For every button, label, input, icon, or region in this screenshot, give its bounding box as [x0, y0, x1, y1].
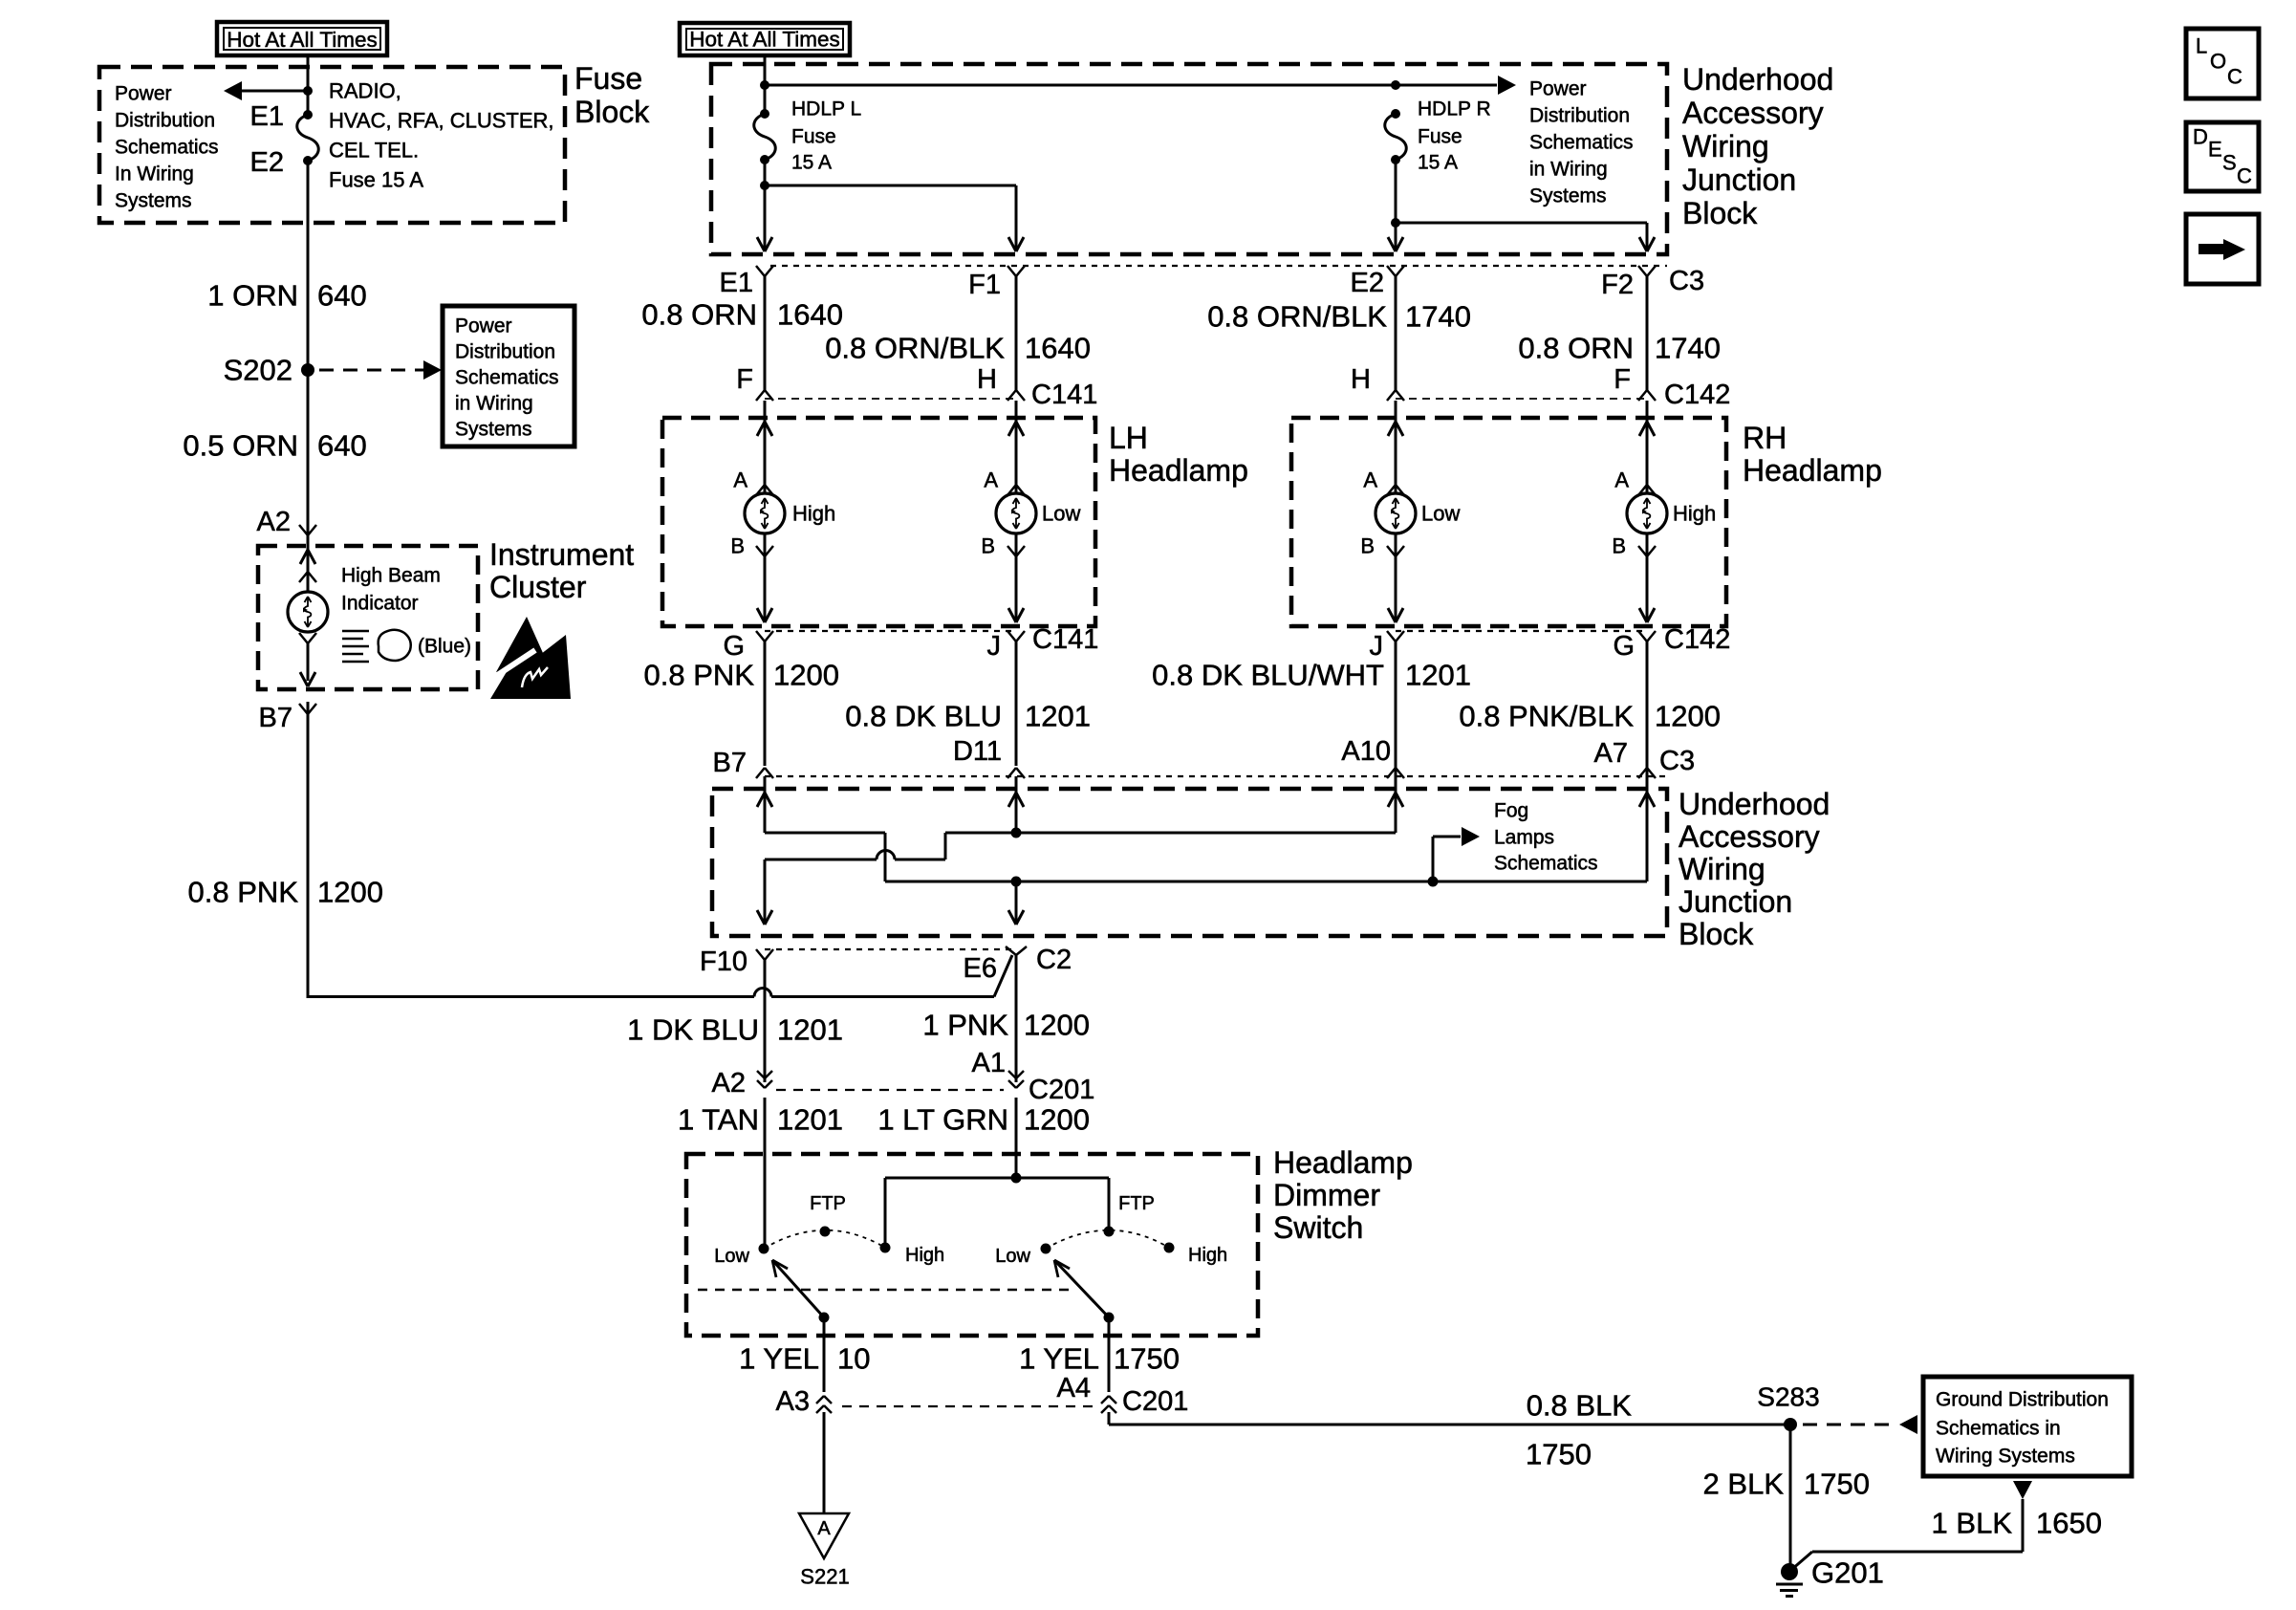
svg-text:Accessory: Accessory	[1682, 96, 1824, 130]
svg-text:Power: Power	[1529, 78, 1587, 100]
svg-text:C: C	[2227, 65, 2242, 89]
RH headlamp dashed box	[1291, 418, 1726, 626]
svg-text:0.8 ORN: 0.8 ORN	[641, 298, 757, 332]
contact: dimmer 2 Low	[1041, 1244, 1051, 1254]
svg-text:E1: E1	[250, 101, 284, 132]
off-page connector S221	[799, 1513, 849, 1558]
svg-text:A2: A2	[712, 1068, 746, 1099]
junction: high bus at fog branch	[1428, 877, 1439, 887]
svg-text:LH: LH	[1109, 421, 1148, 455]
wire: F1 to H (LH low feed)	[1015, 276, 1018, 390]
contact: dimmer 1 High	[880, 1243, 891, 1253]
wire below indicator	[299, 633, 308, 643]
icon: headlamp beam symbol	[342, 630, 369, 633]
switch arm dimmer 2	[1104, 1313, 1115, 1323]
svg-text:A: A	[984, 468, 998, 492]
svg-text:0.5 ORN: 0.5 ORN	[183, 429, 298, 463]
svg-text:Low: Low	[995, 1246, 1030, 1267]
contact: dimmer 1 Low	[759, 1244, 769, 1254]
svg-text:Junction: Junction	[1679, 884, 1792, 919]
splice S202	[301, 363, 314, 377]
wire: 1 LT GRN 1200 (A1 to dimmer high)	[1015, 1098, 1018, 1178]
wire: HDLP R output with branch to F2	[1395, 160, 1397, 250]
svg-text:0.8 DK BLU/WHT: 0.8 DK BLU/WHT	[1152, 659, 1384, 692]
svg-text:A: A	[1363, 468, 1377, 492]
svg-text:1200: 1200	[317, 876, 383, 909]
svg-text:F: F	[1614, 364, 1631, 395]
connector C141 (top row F/H)	[765, 398, 1016, 400]
svg-text:A: A	[1614, 468, 1629, 492]
svg-text:C3: C3	[1659, 746, 1695, 776]
svg-text:Block: Block	[1682, 196, 1758, 230]
svg-text:1740: 1740	[1655, 332, 1721, 365]
wire: B7 stub into junction block	[764, 776, 767, 833]
wire: J to A10	[1395, 642, 1397, 766]
svg-text:1 LT GRN: 1 LT GRN	[877, 1103, 1008, 1137]
mechanical link dashed line	[698, 1289, 1071, 1292]
svg-text:A10: A10	[1341, 736, 1391, 767]
svg-text:High: High	[792, 502, 835, 526]
svg-text:1200: 1200	[1024, 1103, 1090, 1137]
svg-text:F1: F1	[968, 270, 1001, 300]
connector C201 row (A3/A4)	[842, 1405, 1094, 1407]
svg-text:0.8 PNK: 0.8 PNK	[644, 659, 755, 692]
junction node on feed	[303, 86, 313, 96]
svg-text:1201: 1201	[1405, 659, 1471, 692]
svg-text:1 PNK: 1 PNK	[922, 1009, 1008, 1042]
connector C2 row (F10/E6)	[765, 948, 1016, 950]
svg-text:FTP: FTP	[810, 1193, 846, 1214]
svg-text:1200: 1200	[1024, 1009, 1090, 1042]
svg-text:Fuse 15 A: Fuse 15 A	[329, 168, 423, 192]
svg-text:Ground Distribution: Ground Distribution	[1936, 1389, 2109, 1411]
svg-text:1750: 1750	[1114, 1342, 1180, 1376]
svg-text:Schematics: Schematics	[455, 367, 559, 389]
svg-text:in Wiring: in Wiring	[455, 393, 533, 415]
fuse: HDLP L Fuse 15 A	[760, 109, 769, 119]
wire: low-beam bus (F10 to D11/A10) with hop	[765, 859, 877, 861]
svg-text:10: 10	[837, 1342, 870, 1376]
connector C142 (bottom row J/G)	[1396, 630, 1647, 632]
dashed arc dimmer 2	[1046, 1230, 1169, 1249]
svg-text:Wiring: Wiring	[1679, 852, 1765, 886]
svg-text:1200: 1200	[773, 659, 839, 692]
wire: 1 BLK 1650	[2022, 1499, 2025, 1552]
wire out of headlamp	[1646, 533, 1649, 621]
svg-text:C201: C201	[1029, 1075, 1094, 1105]
svg-text:1750: 1750	[1526, 1438, 1592, 1471]
svg-text:E1: E1	[720, 268, 753, 298]
svg-text:E2: E2	[250, 147, 284, 178]
wire into headlamp	[1015, 401, 1018, 494]
contact: dimmer 2 High	[1164, 1243, 1175, 1253]
underhood accessory wiring junction block (lower) dashed box	[712, 789, 1667, 936]
svg-text:Low: Low	[1421, 502, 1460, 526]
high beam indicator lamp	[288, 592, 328, 632]
fuse: RADIO HVAC RFA CLUSTER CEL TEL 15 A	[303, 110, 313, 120]
svg-text:Power: Power	[455, 315, 512, 337]
wire into headlamp	[1395, 401, 1397, 494]
svg-text:Fuse: Fuse	[574, 61, 642, 96]
power label box: Hot At All Times (center)	[680, 23, 850, 55]
junction: low bus at D11	[1011, 828, 1022, 838]
svg-text:Headlamp: Headlamp	[1273, 1145, 1413, 1180]
svg-text:A: A	[733, 468, 747, 492]
wire: E6 stub out of junction block	[1015, 881, 1018, 924]
wire: 1 PNK 1200 (E6 to A1)	[1015, 955, 1018, 1082]
wire: G to A7	[1646, 642, 1649, 766]
svg-text:C142: C142	[1664, 380, 1730, 410]
svg-text:G: G	[723, 631, 745, 662]
svg-text:1 TAN: 1 TAN	[678, 1103, 759, 1137]
svg-text:RADIO,: RADIO,	[329, 79, 401, 103]
svg-text:1201: 1201	[777, 1103, 843, 1137]
wire: A7 stub	[1646, 765, 1649, 881]
icon: ESD sensitive device symbol	[496, 617, 547, 672]
svg-text:0.8 PNK/BLK: 0.8 PNK/BLK	[1459, 700, 1634, 733]
svg-text:C142: C142	[1664, 624, 1730, 655]
svg-text:RH: RH	[1743, 421, 1787, 455]
svg-text:S221: S221	[800, 1565, 849, 1589]
svg-text:S202: S202	[224, 354, 292, 387]
svg-text:B7: B7	[713, 748, 747, 778]
svg-text:A7: A7	[1594, 738, 1628, 769]
instrument cluster dashed box	[258, 546, 478, 689]
wire into headlamp	[764, 401, 767, 494]
svg-text:H: H	[977, 364, 997, 395]
svg-text:F2: F2	[1601, 270, 1634, 300]
svg-text:C201: C201	[1122, 1386, 1188, 1417]
svg-text:Distribution: Distribution	[115, 110, 215, 132]
wire: 1 YEL 10 (dimmer to A3)	[823, 1317, 826, 1392]
svg-text:High Beam: High Beam	[341, 565, 441, 587]
svg-text:G201: G201	[1811, 1556, 1884, 1590]
pin B7 (instrument cluster)	[299, 704, 308, 714]
svg-text:C141: C141	[1032, 624, 1098, 655]
nav box: arrow	[2186, 214, 2259, 284]
svg-text:15 A: 15 A	[1418, 152, 1458, 174]
svg-text:Wiring Systems: Wiring Systems	[1936, 1446, 2075, 1468]
connector row B7/D11/A10/A7 (C3)	[765, 775, 1667, 777]
svg-text:Fuse: Fuse	[1418, 126, 1462, 148]
svg-text:Underhood: Underhood	[1682, 62, 1833, 97]
wire: high feed bracket in dimmer switch	[1011, 1173, 1022, 1184]
svg-text:E6: E6	[964, 953, 997, 984]
lamp: RH high beam	[1627, 493, 1667, 533]
svg-text:1 BLK: 1 BLK	[1932, 1507, 2013, 1540]
svg-text:G: G	[1613, 631, 1635, 662]
svg-text:CEL TEL.: CEL TEL.	[329, 139, 419, 163]
svg-text:D: D	[2193, 125, 2208, 149]
svg-text:1650: 1650	[2036, 1507, 2102, 1540]
dashed reference arrow from S202	[319, 369, 426, 372]
lamp: LH low beam	[996, 493, 1036, 533]
wire: fog lamps branch	[1432, 837, 1435, 881]
svg-text:1640: 1640	[1025, 332, 1091, 365]
svg-text:Underhood: Underhood	[1679, 787, 1830, 821]
svg-text:1 DK BLU: 1 DK BLU	[627, 1013, 759, 1047]
fuse block dashed box	[99, 67, 565, 223]
connector C141 (bottom row G/J)	[765, 630, 1016, 632]
svg-text:Dimmer: Dimmer	[1273, 1178, 1380, 1212]
svg-text:Indicator: Indicator	[341, 593, 419, 615]
underhood accessory wiring junction block (top) dashed box	[711, 64, 1667, 254]
wire: horizontal run to E6 with hop over F10 wire	[308, 995, 754, 998]
svg-text:0.8 ORN: 0.8 ORN	[1518, 332, 1634, 365]
wire: battery feed from Hot At All Times into fuse block	[307, 55, 310, 114]
wire: E2 to H (RH low feed)	[1395, 276, 1397, 390]
svg-text:Schematics in: Schematics in	[1936, 1418, 2061, 1440]
svg-text:Low: Low	[714, 1246, 749, 1267]
svg-text:Distribution: Distribution	[1529, 105, 1630, 127]
svg-text:A4: A4	[1057, 1373, 1091, 1403]
node on HDLP L feed	[760, 80, 769, 90]
junction: high bus at E6 drop	[1011, 877, 1022, 887]
svg-text:C3: C3	[1669, 266, 1704, 296]
svg-text:Accessory: Accessory	[1679, 819, 1820, 854]
headlamp dimmer switch dashed box	[686, 1154, 1258, 1336]
wire out of headlamp	[1395, 533, 1397, 621]
contact: dimmer 1 FTP	[820, 1227, 831, 1237]
svg-text:Schematics: Schematics	[115, 137, 219, 159]
svg-text:A2: A2	[257, 507, 291, 537]
contact: dimmer 2 FTP	[1104, 1227, 1115, 1237]
svg-text:0.8 PNK: 0.8 PNK	[188, 876, 299, 909]
svg-text:1 ORN: 1 ORN	[207, 279, 298, 313]
svg-text:E2: E2	[1351, 268, 1384, 298]
wire: high-beam bus (B7 to A7/E6)	[765, 832, 885, 835]
svg-text:High: High	[905, 1245, 944, 1266]
wire: 2 BLK 1750 (S283 to G201)	[1789, 1425, 1792, 1569]
svg-text:Low: Low	[1042, 502, 1080, 526]
svg-text:S283: S283	[1757, 1382, 1819, 1412]
off-page connector triangle from ground box	[2013, 1481, 2032, 1499]
wire: feed from Hot At All Times (center)	[764, 55, 767, 114]
svg-text:A3: A3	[776, 1386, 810, 1417]
svg-text:A1: A1	[972, 1048, 1006, 1078]
wire out of headlamp	[764, 533, 767, 621]
reference box: Ground Distribution Schematics in Wiring Systems	[1923, 1377, 2132, 1476]
power label box: Hot At All Times (left)	[217, 22, 387, 55]
svg-text:Schematics: Schematics	[1529, 132, 1634, 154]
svg-text:B7: B7	[259, 703, 292, 733]
svg-text:1750: 1750	[1804, 1468, 1870, 1501]
svg-text:0.8 DK BLU: 0.8 DK BLU	[845, 700, 1002, 733]
svg-text:In Wiring: In Wiring	[115, 163, 194, 185]
wire: F2 to F (RH high feed)	[1646, 276, 1649, 390]
svg-text:1201: 1201	[777, 1013, 843, 1047]
svg-text:Block: Block	[1679, 917, 1754, 951]
wire into headlamp	[1646, 401, 1649, 494]
svg-text:B: B	[1612, 534, 1626, 558]
svg-text:B: B	[981, 534, 995, 558]
lamp: RH low beam	[1375, 493, 1416, 533]
svg-text:FTP: FTP	[1118, 1193, 1155, 1214]
svg-text:1 YEL: 1 YEL	[1019, 1342, 1099, 1376]
svg-text:Wiring: Wiring	[1682, 129, 1769, 163]
svg-text:640: 640	[317, 429, 367, 463]
svg-text:Fog: Fog	[1494, 800, 1528, 822]
svg-text:Fuse: Fuse	[791, 126, 836, 148]
LH headlamp dashed box	[662, 418, 1095, 626]
wire: 1 DK BLU 1201 (F10 to A2)	[764, 960, 767, 1082]
svg-text:1 YEL: 1 YEL	[739, 1342, 819, 1376]
svg-text:HVAC, RFA, CLUSTER,: HVAC, RFA, CLUSTER,	[329, 109, 554, 133]
svg-text:15 A: 15 A	[791, 152, 832, 174]
svg-text:Cluster: Cluster	[489, 570, 587, 604]
svg-text:L: L	[2196, 34, 2207, 58]
svg-text:C141: C141	[1031, 380, 1097, 410]
wire into high beam indicator	[307, 535, 310, 593]
svg-text:Switch: Switch	[1273, 1210, 1363, 1245]
svg-text:1740: 1740	[1405, 300, 1471, 334]
wire: 1 ORN 640	[307, 161, 310, 370]
svg-text:Schematics: Schematics	[1494, 853, 1598, 875]
wire out of headlamp	[1015, 533, 1018, 621]
nav box: DESC	[2186, 122, 2259, 191]
svg-text:HDLP R: HDLP R	[1418, 98, 1491, 120]
svg-text:S: S	[2222, 151, 2237, 175]
svg-text:1640: 1640	[777, 298, 843, 332]
wire: J to D11	[1015, 642, 1018, 766]
svg-text:2 BLK: 2 BLK	[1703, 1468, 1785, 1501]
svg-text:640: 640	[317, 279, 367, 313]
wire: 0.8 PNK 1200 (indicator to C2)	[307, 702, 310, 998]
arrow: to power distribution schematics (left)	[229, 90, 308, 93]
svg-text:Systems: Systems	[1529, 185, 1607, 207]
svg-text:B: B	[730, 534, 745, 558]
wire: 0.5 ORN 640	[307, 370, 310, 535]
svg-text:C2: C2	[1036, 945, 1072, 975]
switch arm dimmer 1	[819, 1313, 830, 1323]
svg-text:0.8 ORN/BLK: 0.8 ORN/BLK	[1207, 300, 1387, 334]
svg-text:Hot At All Times: Hot At All Times	[227, 28, 378, 52]
svg-text:J: J	[1370, 631, 1384, 662]
svg-text:Junction: Junction	[1682, 163, 1796, 197]
svg-text:Distribution: Distribution	[455, 341, 555, 363]
wire: F10 stub out of junction block	[764, 859, 767, 924]
svg-text:F: F	[736, 364, 753, 395]
wire: 1 YEL 1750 (dimmer to A4)	[1108, 1317, 1111, 1392]
svg-text:O: O	[2210, 50, 2226, 74]
svg-text:(Blue): (Blue)	[418, 636, 471, 658]
wire: A3 to S221	[823, 1412, 826, 1513]
wire: E1 to F (LH high feed)	[764, 276, 767, 390]
svg-text:Headlamp: Headlamp	[1109, 453, 1248, 488]
svg-text:E: E	[2208, 138, 2222, 162]
connector C201 row (A2/A1)	[776, 1089, 1004, 1091]
svg-text:Systems: Systems	[115, 190, 192, 212]
svg-text:1200: 1200	[1655, 700, 1721, 733]
lamp: LH high beam	[745, 493, 785, 533]
wire: G to B7	[764, 642, 767, 766]
svg-text:B: B	[1360, 534, 1375, 558]
ground G201	[1781, 1563, 1798, 1580]
wire: 0.8 BLK 1750 (A4 to S283)	[1108, 1412, 1111, 1425]
svg-text:High: High	[1188, 1245, 1227, 1266]
svg-text:in Wiring: in Wiring	[1529, 159, 1608, 181]
svg-text:HDLP L: HDLP L	[791, 98, 861, 120]
dashed arc dimmer 1	[764, 1230, 885, 1249]
svg-text:Power: Power	[115, 83, 172, 105]
svg-text:J: J	[987, 631, 1002, 662]
fuse: HDLP R Fuse 15 A	[1391, 109, 1400, 119]
svg-text:H: H	[1351, 364, 1371, 395]
svg-text:D11: D11	[953, 736, 1002, 767]
wire: D11 stub into junction block	[1015, 776, 1018, 833]
nav box: LOC	[2186, 29, 2259, 98]
svg-text:Hot At All Times: Hot At All Times	[689, 28, 840, 52]
svg-text:Block: Block	[574, 95, 650, 129]
wire: HDLP L output with branch to F1	[764, 160, 767, 250]
svg-text:Lamps: Lamps	[1494, 827, 1554, 849]
svg-text:High: High	[1673, 502, 1716, 526]
svg-text:Instrument: Instrument	[489, 537, 634, 572]
svg-text:F10: F10	[700, 946, 747, 977]
svg-text:A: A	[817, 1518, 831, 1539]
svg-text:0.8 ORN/BLK: 0.8 ORN/BLK	[825, 332, 1005, 365]
svg-text:Systems: Systems	[455, 419, 532, 441]
dashed reference arrow to ground distribution	[1803, 1424, 1896, 1426]
reference box: Power Distribution Schematics in Wiring Systems	[443, 306, 574, 446]
connector row: fuse block pins E1/F1/E2/F2 (C3)	[770, 265, 1667, 267]
svg-text:C: C	[2237, 164, 2252, 188]
splice S283	[1784, 1418, 1797, 1431]
svg-text:1201: 1201	[1025, 700, 1091, 733]
svg-text:0.8 BLK: 0.8 BLK	[1527, 1389, 1633, 1423]
wire: 1 TAN 1201 (A2 to dimmer low)	[764, 1098, 767, 1249]
power bus to HDLP R and reference arrow	[765, 84, 1396, 87]
wire: A10 stub	[1395, 765, 1397, 833]
svg-text:Headlamp: Headlamp	[1743, 453, 1882, 488]
connector C142 (top row H/F)	[1396, 398, 1647, 400]
